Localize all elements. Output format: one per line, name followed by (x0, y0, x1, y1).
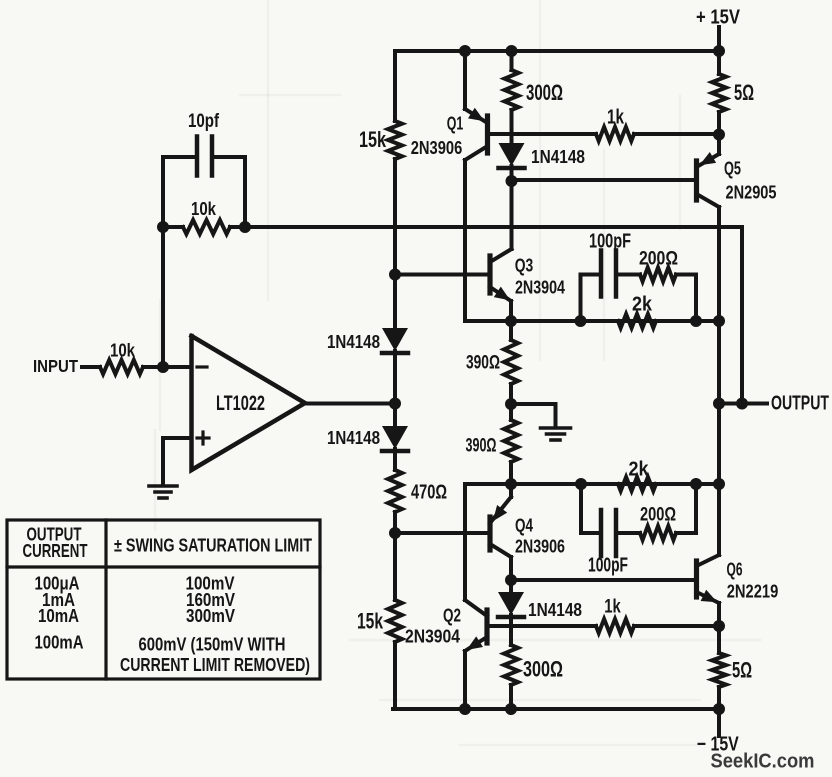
svg-text:2N2905: 2N2905 (726, 183, 777, 203)
svg-text:390Ω: 390Ω (466, 352, 500, 374)
svg-text:2k: 2k (629, 459, 650, 481)
svg-text:± SWING SATURATION LIMIT: ± SWING SATURATION LIMIT (114, 535, 313, 556)
svg-text:300mV: 300mV (186, 605, 236, 626)
svg-text:10pf: 10pf (188, 111, 220, 132)
svg-text:300Ω: 300Ω (523, 657, 563, 682)
svg-text:100mA: 100mA (35, 632, 84, 653)
svg-text:INPUT: INPUT (33, 356, 78, 376)
svg-text:SeekIC.com: SeekIC.com (711, 750, 815, 773)
svg-text:Q2: Q2 (443, 605, 461, 626)
svg-text:1k: 1k (604, 596, 621, 618)
svg-text:Q3: Q3 (515, 255, 534, 276)
svg-text:1N4148: 1N4148 (327, 428, 380, 448)
svg-text:2N3906: 2N3906 (411, 138, 463, 158)
svg-text:CURRENT: CURRENT (23, 540, 88, 561)
svg-text:470Ω: 470Ω (411, 482, 447, 504)
svg-text:1N4148: 1N4148 (528, 600, 582, 620)
svg-text:2N3904: 2N3904 (515, 278, 565, 298)
svg-text:5Ω: 5Ω (732, 658, 752, 683)
svg-text:200Ω: 200Ω (640, 505, 676, 526)
svg-text:Q6: Q6 (727, 559, 743, 580)
svg-text:10k: 10k (191, 198, 217, 219)
svg-text:2k: 2k (632, 294, 653, 316)
svg-text:Q4: Q4 (515, 515, 534, 536)
svg-text:CURRENT LIMIT REMOVED): CURRENT LIMIT REMOVED) (120, 654, 310, 675)
svg-text:2N2219: 2N2219 (727, 582, 779, 602)
svg-text:1N4148: 1N4148 (531, 147, 585, 167)
svg-text:10mA: 10mA (38, 605, 79, 626)
svg-text:600mV (150mV WITH: 600mV (150mV WITH (139, 634, 286, 655)
svg-text:LT1022: LT1022 (216, 392, 265, 415)
svg-text:5Ω: 5Ω (734, 80, 754, 105)
svg-text:1N4148: 1N4148 (327, 332, 380, 352)
svg-text:390Ω: 390Ω (466, 435, 497, 457)
svg-text:300Ω: 300Ω (526, 80, 563, 105)
svg-text:100pF: 100pF (589, 231, 631, 253)
svg-text:+ 15V: + 15V (696, 7, 741, 29)
svg-text:10k: 10k (110, 340, 136, 361)
svg-text:2N3906: 2N3906 (515, 537, 565, 557)
svg-text:200Ω: 200Ω (639, 249, 678, 270)
svg-text:15k: 15k (359, 127, 387, 152)
svg-text:100pF: 100pF (588, 555, 628, 577)
svg-text:2N3904: 2N3904 (405, 627, 460, 647)
svg-text:1k: 1k (607, 107, 625, 129)
svg-text:Q5: Q5 (724, 158, 741, 179)
svg-text:15k: 15k (357, 609, 384, 634)
svg-text:OUTPUT: OUTPUT (771, 393, 829, 415)
svg-text:Q1: Q1 (447, 113, 464, 134)
